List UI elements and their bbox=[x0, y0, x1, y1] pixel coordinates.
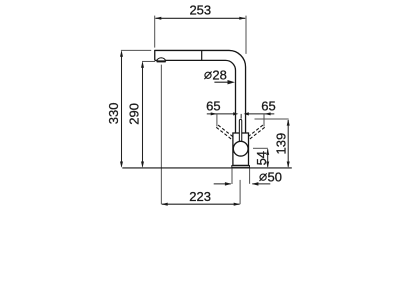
dimension 290 line bbox=[142, 63, 144, 167]
svg-text:253: 253 bbox=[189, 2, 211, 17]
dimension 253 line bbox=[155, 17, 245, 19]
dimension ø28 arrow bbox=[214, 81, 230, 83]
extension line right of 253 bbox=[245, 16, 247, 54]
extension line 65 right bbox=[263, 114, 265, 127]
dimension 223 line bbox=[162, 203, 240, 205]
svg-text:50: 50 bbox=[268, 169, 282, 184]
dimension 65 left arrow bbox=[211, 112, 217, 115]
ball joint bbox=[233, 141, 248, 156]
dimension 65 right line bbox=[246, 113, 275, 115]
svg-text:290: 290 bbox=[127, 103, 142, 125]
svg-text:65: 65 bbox=[261, 99, 275, 114]
dimension 65 left line bbox=[207, 113, 236, 115]
dimension 54 extension line bbox=[253, 147, 268, 149]
svg-text:28: 28 bbox=[212, 68, 226, 83]
svg-text:330: 330 bbox=[106, 103, 121, 125]
svg-text:54: 54 bbox=[254, 151, 269, 165]
dimension 330 arrows bbox=[120, 50, 123, 167]
dimension 290 arrows bbox=[141, 61, 144, 167]
spout seam line bbox=[201, 50, 203, 60]
lever handle upright bbox=[239, 119, 241, 143]
aerator base slab bbox=[157, 61, 166, 63]
dimension 223 arrows bbox=[161, 203, 240, 206]
svg-text:65: 65 bbox=[206, 99, 220, 114]
centerline below base bbox=[239, 180, 241, 204]
extension line from aerator down to 223 dimension bbox=[160, 65, 162, 205]
dimension 54 arrows bbox=[266, 149, 269, 168]
extension line left of 253 bbox=[154, 16, 156, 48]
dimension 65 right inner arrow bbox=[244, 112, 249, 115]
dimension 54 line bbox=[267, 149, 269, 167]
extension line ø50 left bbox=[231, 168, 233, 184]
dashed lever swung left bbox=[216, 125, 234, 140]
faucet body bbox=[233, 133, 249, 165]
extension line 65 left bbox=[216, 114, 218, 127]
dimension 139 extension line bbox=[255, 118, 289, 120]
countertop line bbox=[122, 167, 291, 169]
dimension ø50 right line bbox=[252, 183, 270, 185]
dimension ø28 label bbox=[204, 72, 211, 80]
dimension ø50 left line bbox=[214, 183, 231, 185]
dimension 65 right arrow bbox=[264, 112, 270, 115]
center tick between 65 dimensions bbox=[240, 114, 242, 119]
dimension 139 arrows bbox=[287, 119, 290, 168]
dimension 139 line bbox=[287, 120, 289, 167]
dimension ø50 label bbox=[260, 173, 267, 181]
extension line ø50 right bbox=[249, 168, 251, 183]
base flange bbox=[231, 165, 250, 168]
svg-text:139: 139 bbox=[274, 133, 289, 155]
svg-text:223: 223 bbox=[189, 189, 211, 204]
dimension 330 extension line bbox=[121, 49, 151, 51]
faucet spout outline bbox=[155, 50, 246, 133]
dimension 290 extension line bbox=[142, 60, 155, 62]
dimension 253 arrows bbox=[155, 17, 246, 20]
dashed lever swung right bbox=[246, 125, 264, 140]
dimension 65 left inner arrow bbox=[233, 112, 238, 115]
dimension 330 line bbox=[121, 52, 123, 167]
aerator dome bbox=[157, 58, 166, 61]
